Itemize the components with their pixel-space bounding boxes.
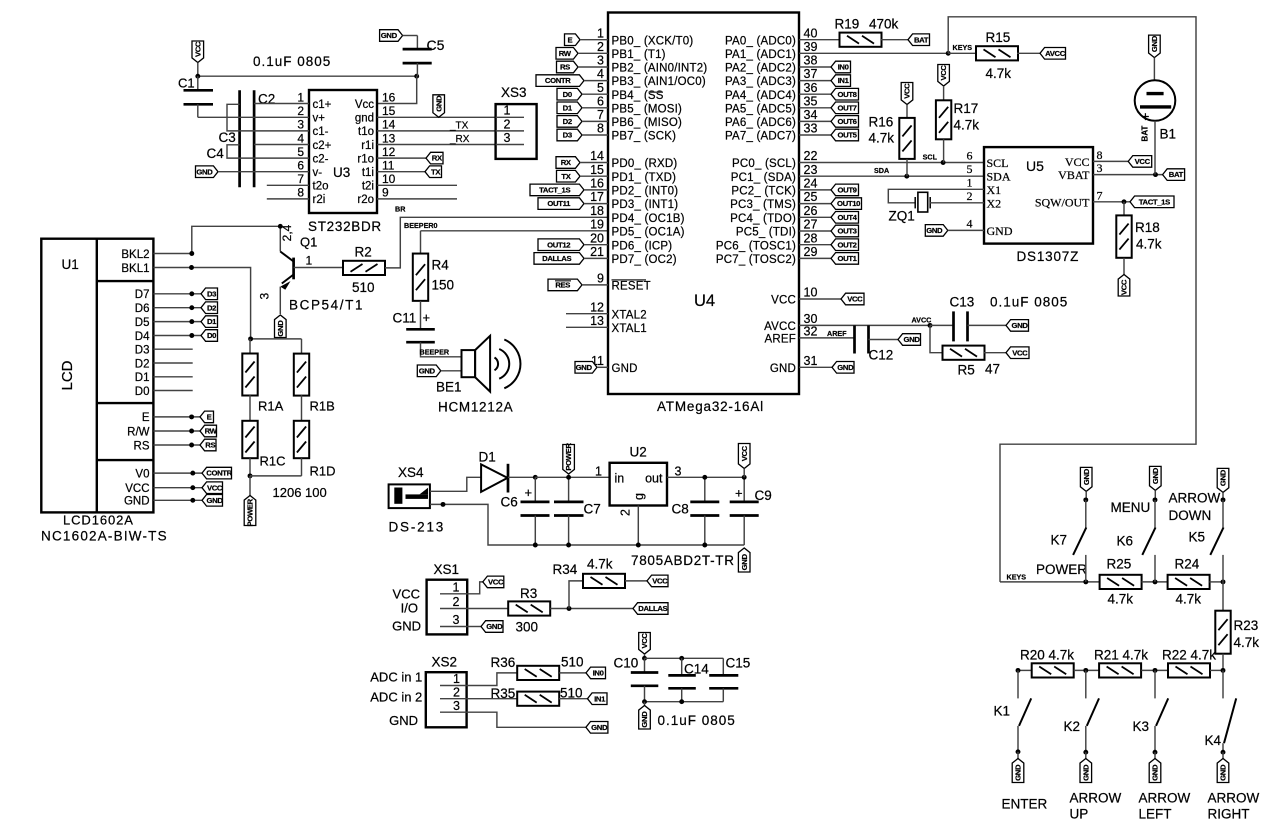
label C1 [178, 76, 195, 91]
junction C5-VCC [414, 74, 419, 79]
flag BAT at R19 [908, 34, 930, 46]
wire to OUT2 [799, 244, 831, 246]
flag VCC at XS1 [483, 576, 504, 588]
label 150 [432, 278, 455, 293]
svg-text:GND: GND [591, 723, 608, 732]
svg-text:BAT: BAT [1169, 170, 1184, 179]
label U2 pin3 [675, 465, 682, 479]
svg-text:DOWN: DOWN [1169, 508, 1212, 523]
flag GND at C12 [898, 334, 921, 346]
svg-text:C7: C7 [584, 502, 601, 517]
svg-text:VCC: VCC [393, 587, 420, 602]
svg-text:D0: D0 [563, 90, 572, 99]
label 470k [869, 17, 899, 32]
wire U3 pin4 [254, 144, 309, 146]
label ARROW UP 1 [1070, 790, 1122, 805]
svg-text:SDA: SDA [987, 170, 1011, 184]
flag OUT8 at U4 [831, 88, 859, 100]
svg-text:MENU: MENU [1111, 500, 1151, 515]
label R2 510 [352, 280, 375, 295]
svg-text:PA7_ (ADC7): PA7_ (ADC7) [725, 131, 796, 143]
U4 pin numbers [590, 26, 817, 368]
svg-text:TX: TX [561, 172, 571, 181]
junction K5 rail [1221, 579, 1226, 584]
wire pin7 [582, 120, 608, 122]
svg-text:GND: GND [392, 619, 421, 634]
net KEYS top [953, 43, 973, 52]
flag GND below K4 [1217, 759, 1229, 783]
flag POWER above C7 [563, 443, 575, 474]
resistor R34 [583, 574, 625, 588]
net AVCC [912, 316, 932, 325]
switch K6 [1142, 500, 1155, 582]
svg-text:R4: R4 [432, 258, 450, 273]
svg-text:XTAL1: XTAL1 [612, 323, 647, 335]
svg-text:2: 2 [504, 117, 511, 131]
battery B1 [1135, 80, 1176, 124]
wire R1A-R1C stem [249, 395, 251, 421]
svg-text:7: 7 [297, 172, 304, 186]
op-amp U3 ST232BDR body [309, 90, 377, 213]
U3 right pin numbers 16-9 [382, 90, 396, 199]
svg-text:R36: R36 [491, 655, 516, 670]
svg-text:C2: C2 [258, 92, 275, 107]
svg-text:VCC: VCC [1065, 155, 1090, 169]
resistor R16 [899, 118, 914, 159]
wire R18 top stem [1123, 202, 1125, 216]
svg-text:300: 300 [516, 620, 539, 635]
svg-text:GND: GND [1014, 764, 1023, 781]
wire U5 VCC [1093, 160, 1128, 162]
IC U1 LCD1602A body [41, 239, 153, 513]
label B1 [1160, 127, 1177, 142]
svg-text:D1: D1 [207, 317, 217, 326]
label ATMega32-16AI [657, 399, 764, 414]
label C7 [584, 502, 601, 517]
svg-text:GND: GND [904, 335, 921, 344]
svg-text:6: 6 [597, 94, 604, 108]
svg-text:PB1_ (T1): PB1_ (T1) [612, 49, 666, 61]
label R23 [1234, 618, 1259, 633]
wire LCD V0 [153, 472, 202, 474]
net _RX [449, 134, 470, 145]
flag VCC above R16 [901, 83, 913, 105]
junction Q1 collector [278, 224, 283, 229]
flag GND above K6 [1150, 466, 1162, 490]
label R23 4.7k [1234, 635, 1260, 650]
svg-text:I/O: I/O [401, 601, 418, 616]
junction K3 bottom [1153, 750, 1158, 755]
wire R1D bottom stem [301, 458, 303, 476]
svg-text:1: 1 [597, 26, 604, 40]
flag D3 at LCD [201, 288, 218, 300]
flag D2 at LCD [201, 302, 218, 314]
svg-text:15: 15 [590, 163, 604, 177]
wire pin17 [584, 203, 608, 205]
junction K4 bottom [1221, 750, 1226, 755]
svg-text:v+: v+ [313, 113, 326, 125]
svg-text:SCL: SCL [987, 156, 1009, 170]
svg-text:38: 38 [804, 54, 818, 68]
svg-text:3: 3 [297, 118, 304, 132]
junction C8 bottom [702, 543, 707, 548]
flag E at LCD [200, 411, 214, 423]
label NC1602A-BIW-TS [41, 529, 168, 544]
svg-text:3: 3 [258, 293, 272, 300]
flag GND below C10 [639, 706, 651, 730]
label R20 4.7k [1020, 648, 1074, 663]
label R3 300 [516, 620, 539, 635]
capacitor C15 [709, 658, 738, 701]
svg-text:16: 16 [382, 90, 396, 104]
wire POWER stem [249, 476, 251, 496]
svg-text:K2: K2 [1064, 719, 1081, 734]
label C11 [393, 311, 417, 326]
svg-text:c2-: c2- [313, 153, 329, 165]
svg-text:v-: v- [313, 167, 323, 179]
wire LCD D4 [153, 335, 201, 337]
label MENU [1111, 500, 1151, 515]
label C9 [755, 488, 772, 503]
wire XS2 pin1 to R36 [467, 673, 518, 686]
svg-text:VCC: VCC [193, 41, 202, 57]
svg-text:D2: D2 [135, 358, 150, 370]
flag GND at BE1 [417, 365, 441, 377]
wire BKL1 to R1 rail [153, 268, 250, 339]
svg-text:t1i: t1i [362, 167, 374, 179]
svg-text:1: 1 [306, 254, 313, 268]
wire XS1 pin2 to R3 [467, 608, 508, 610]
flag GND below K1 [1012, 759, 1024, 783]
svg-text:GND: GND [612, 363, 638, 375]
flag CONTR at U4 pin4 [536, 75, 584, 87]
XS2 pin names [370, 669, 422, 728]
connector XS1 [427, 580, 468, 635]
label XS4 [398, 465, 424, 480]
label R25 [1107, 556, 1132, 571]
wire XTAL1 stub [566, 326, 608, 328]
junction VBAT [1153, 172, 1158, 177]
wire XS2 pin3 to GND [467, 712, 586, 727]
connector XS4 DS-213 [389, 484, 430, 508]
label BCP54/T1 [289, 298, 364, 313]
svg-text:XS2: XS2 [432, 655, 458, 670]
wire pin3 [578, 66, 608, 68]
flag GND above B1 [1149, 35, 1161, 58]
svg-text:C5: C5 [427, 37, 445, 53]
label R16 [869, 115, 894, 130]
wire LCD D3 stub [153, 348, 192, 350]
svg-text:3: 3 [504, 131, 511, 145]
svg-text:R1B: R1B [310, 399, 335, 414]
svg-text:in: in [615, 471, 625, 485]
label ARROW RIGHT 1 [1208, 790, 1260, 805]
junction C6 bottom [533, 543, 538, 548]
svg-text:BCP54/T1: BCP54/T1 [289, 298, 364, 313]
svg-text:U4: U4 [694, 292, 715, 310]
svg-text:11: 11 [382, 159, 395, 173]
wire R17 top stem [943, 86, 945, 100]
wire SDA net [799, 175, 984, 177]
svg-text:TACT_1S: TACT_1S [539, 186, 570, 195]
label DS-213 [389, 520, 446, 535]
wire K7 gnd stem [1085, 491, 1087, 500]
junction C14 bottom [679, 699, 684, 704]
label ARROW DOWN 2 [1169, 508, 1212, 523]
svg-text:GND: GND [640, 711, 649, 728]
svg-text:ARROW: ARROW [1169, 490, 1221, 505]
svg-text:GND: GND [576, 363, 593, 372]
flag D2 at U4 pin7 [557, 116, 582, 128]
svg-text:29: 29 [804, 245, 818, 259]
svg-text:c1+: c1+ [313, 99, 332, 111]
svg-text:Vcc: Vcc [355, 99, 374, 111]
svg-text:RW: RW [559, 49, 572, 58]
svg-text:D4: D4 [135, 331, 150, 343]
wire keys rail1 c [1209, 581, 1223, 583]
svg-text:C6: C6 [501, 495, 518, 510]
flag GND at U4 pin31 [832, 362, 854, 374]
wire main 5V rail [535, 476, 609, 478]
label ARROW LEFT 2 [1139, 806, 1172, 821]
svg-text:4.7k: 4.7k [986, 66, 1012, 81]
svg-text:RX: RX [561, 158, 572, 167]
svg-text:POWER: POWER [1036, 562, 1087, 577]
resistor R4 [413, 254, 428, 301]
svg-text:PA3_ (ADC3): PA3_ (ADC3) [725, 76, 796, 88]
svg-text:25: 25 [804, 190, 818, 204]
svg-text:14: 14 [382, 118, 396, 132]
svg-text:1: 1 [967, 175, 973, 189]
svg-text:HCM1212A: HCM1212A [438, 400, 513, 415]
svg-text:OUT7: OUT7 [837, 103, 856, 112]
wire R1B top stem [301, 339, 303, 354]
label R1A [258, 399, 284, 414]
svg-text:E: E [568, 35, 573, 44]
svg-text:D3: D3 [563, 131, 572, 140]
connector XS2 [426, 672, 467, 727]
svg-text:GND: GND [837, 363, 854, 372]
wire to OUT9 [799, 189, 831, 191]
svg-text:R21 4.7k: R21 4.7k [1094, 648, 1148, 663]
label R3 [520, 586, 537, 601]
svg-text:RIGHT: RIGHT [1208, 806, 1250, 821]
wire U3 pin7 stub [267, 184, 309, 186]
junction K2 rail [1083, 668, 1088, 673]
wire C10 top stem [644, 654, 646, 658]
XS1 pin names [392, 587, 421, 634]
svg-text:OUT6: OUT6 [837, 117, 856, 126]
svg-text:39: 39 [804, 40, 818, 54]
svg-text:GND: GND [1219, 469, 1228, 486]
wire R3 to DALLAS [550, 608, 633, 610]
svg-text:K6: K6 [1117, 534, 1134, 549]
svg-text:17: 17 [590, 190, 604, 204]
svg-text:5: 5 [597, 81, 604, 95]
wire keys rail2 d [1210, 669, 1223, 671]
svg-text:R3: R3 [520, 586, 537, 601]
svg-text:D1: D1 [563, 103, 573, 112]
flag VCC top-left [192, 41, 204, 63]
wire U3 pin15 gnd to XS3-1 [377, 116, 496, 118]
svg-text:g: g [632, 493, 646, 500]
wire B1 top stem [1153, 58, 1155, 81]
wire GND stem C10 [644, 702, 646, 706]
junction K3 rail [1153, 668, 1158, 673]
flag TACT_1S at U5 [1130, 196, 1174, 208]
svg-text:TX: TX [431, 167, 441, 176]
label K1 [994, 704, 1011, 719]
svg-text:VCC: VCC [1120, 279, 1129, 295]
wire R15 to AVCC [1017, 52, 1040, 54]
U3 left pin numbers 1-8 [297, 90, 304, 199]
IC U4 ATMega32-16AI body [608, 13, 799, 395]
svg-text:0.1uF 0805: 0.1uF 0805 [990, 295, 1068, 310]
label POWER key [1036, 562, 1087, 577]
label XS2 [432, 655, 458, 670]
svg-text:X2: X2 [987, 196, 1002, 210]
capacitor C1 [184, 76, 214, 117]
wire pin16 [584, 189, 608, 191]
svg-text:PA2_ (ADC2): PA2_ (ADC2) [725, 63, 796, 75]
flag OUT1 at U4 [831, 253, 859, 265]
svg-text:36: 36 [804, 81, 818, 95]
svg-text:PC7_ (TOSC2): PC7_ (TOSC2) [716, 254, 796, 266]
svg-text:PD7_ (OC2): PD7_ (OC2) [612, 254, 677, 266]
svg-text:GND: GND [486, 622, 503, 631]
label R4 [432, 258, 450, 273]
svg-text:IN1: IN1 [838, 76, 850, 85]
wire U2 out [667, 476, 744, 478]
svg-text:LEFT: LEFT [1139, 806, 1172, 821]
svg-text:OUT10: OUT10 [837, 199, 860, 208]
svg-text:D6: D6 [135, 303, 150, 315]
wire R16 top stem [906, 105, 908, 118]
svg-text:VCC: VCC [207, 483, 223, 492]
svg-text:CONTR: CONTR [545, 76, 571, 85]
flag VCC above C10 [639, 633, 651, 655]
svg-text:RS: RS [205, 441, 215, 450]
junction SQW [1122, 199, 1127, 204]
svg-text:DALLAS: DALLAS [638, 604, 667, 613]
svg-text:RW: RW [205, 427, 218, 436]
wire R34 to VCC [625, 580, 647, 582]
svg-text:2: 2 [597, 40, 604, 54]
wire VCC stem C9 [743, 469, 745, 478]
svg-text:PA4_ (ADC4): PA4_ (ADC4) [725, 90, 796, 102]
wire C5 to U3 pin16 [377, 76, 417, 103]
junction C14 top [679, 656, 684, 661]
label K2 [1064, 719, 1081, 734]
svg-text:LCD1602A: LCD1602A [63, 513, 134, 528]
svg-text:4.7k: 4.7k [1136, 237, 1162, 252]
svg-text:PD1_ (TXD): PD1_ (TXD) [612, 172, 677, 184]
junction C1-VCC [195, 74, 200, 79]
svg-text:D3: D3 [135, 345, 150, 357]
capacitor C13 [930, 311, 1006, 341]
label C10 [614, 656, 639, 671]
wire LCD E [153, 416, 200, 418]
wire LCD D5 [153, 321, 201, 323]
label R15 [986, 30, 1011, 45]
wire K5 gnd stem [1222, 492, 1224, 500]
svg-text:31: 31 [804, 354, 818, 368]
wire U5 GND [948, 229, 984, 231]
svg-text:AVCC: AVCC [1045, 49, 1066, 58]
svg-text:GND: GND [770, 363, 796, 375]
junction K6 top [1153, 497, 1158, 502]
label R36 510 [561, 655, 584, 670]
svg-text:R1D: R1D [310, 464, 336, 479]
flag TACT_1S at U4 pin16 [530, 184, 584, 196]
svg-text:R15: R15 [986, 30, 1011, 45]
wire SCL net [799, 162, 984, 164]
wire U3 pin6 v- [218, 171, 309, 173]
junction K2 bottom [1083, 750, 1088, 755]
svg-text:c2+: c2+ [313, 140, 332, 152]
wire LCD D7 [153, 293, 201, 295]
net SCL [923, 152, 938, 161]
svg-text:1206 100: 1206 100 [273, 485, 327, 500]
wire R16 bottom stem [906, 159, 908, 176]
wire U3 pin11 t1i [377, 171, 425, 173]
svg-text:BR: BR [395, 205, 406, 214]
label DS1307Z [1017, 249, 1080, 264]
svg-text:KEYS: KEYS [953, 43, 973, 52]
wire C10-C15 bottom rail [645, 701, 724, 703]
svg-text:PA0_ (ADC0): PA0_ (ADC0) [725, 35, 796, 47]
wire U3 pin12 r1o [377, 157, 426, 159]
capacitor C14 [668, 658, 696, 701]
flag OUT12 at U4 pin20 [538, 239, 584, 251]
junction C8 top [702, 475, 707, 480]
svg-text:SQW/OUT: SQW/OUT [1035, 195, 1090, 209]
flag RS at LCD [200, 439, 216, 451]
flag CONTR at LCD [202, 467, 233, 479]
switch K3 [1155, 670, 1168, 752]
label 0.1uF 0805 bottom [658, 713, 736, 728]
flag D0 at LCD [201, 330, 218, 342]
wire R18 bottom stem [1123, 258, 1125, 275]
svg-text:+: + [525, 485, 533, 500]
wire KEYS to R15 [948, 52, 977, 54]
label U2 pin1 [595, 465, 602, 479]
flag OUT5 at U4 [831, 129, 859, 141]
resistor R3 [508, 601, 550, 615]
svg-text:OUT1: OUT1 [837, 254, 857, 263]
svg-text:c1-: c1- [313, 126, 329, 138]
resistor R5 [943, 346, 985, 360]
svg-text:RS: RS [134, 440, 150, 452]
svg-text:XS1: XS1 [434, 562, 460, 577]
junction K1 rail [1016, 668, 1021, 673]
label XS1 [434, 562, 460, 577]
svg-text:ENTER: ENTER [1002, 797, 1048, 812]
wire pin10 VCC [799, 298, 841, 300]
wire keys rail2 c [1141, 669, 1168, 671]
svg-text:19: 19 [590, 218, 604, 232]
label C8 [672, 502, 689, 517]
svg-text:C9: C9 [755, 488, 772, 503]
flag GND below rail [738, 548, 750, 572]
svg-text:26: 26 [804, 204, 818, 218]
svg-text:R2: R2 [355, 245, 372, 260]
flag DALLAS at R3 [633, 603, 668, 615]
svg-text:OUT5: OUT5 [837, 131, 857, 140]
wire AVCC to R5 [930, 325, 943, 352]
wire pin4 [584, 80, 608, 82]
svg-text:D3: D3 [207, 289, 216, 298]
